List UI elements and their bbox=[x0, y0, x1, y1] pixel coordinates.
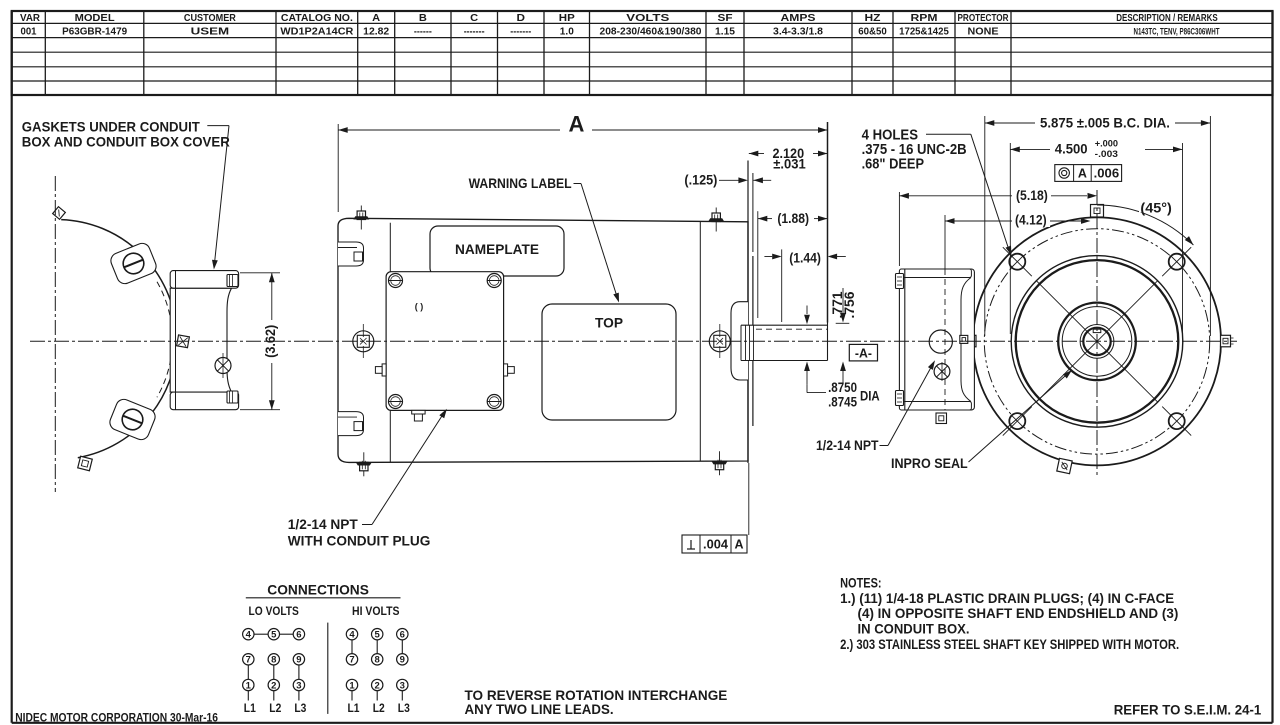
dimension .8750/.8745 DIA shaft bbox=[804, 306, 880, 410]
svg-text:CONNECTIONS: CONNECTIONS bbox=[267, 582, 369, 598]
svg-text:8: 8 bbox=[271, 655, 276, 666]
svg-text:L2: L2 bbox=[373, 703, 385, 715]
fan cover drain plug (bottom) bbox=[78, 456, 93, 471]
svg-text:8: 8 bbox=[375, 655, 380, 666]
terminal HI 2 bbox=[372, 679, 383, 691]
svg-text:9: 9 bbox=[400, 655, 405, 666]
wire LO 1-L1 bbox=[247, 691, 249, 701]
note GASKETS UNDER CONDUIT BOX bbox=[22, 120, 230, 150]
svg-text:REFER TO S.E.I.M. 24-1: REFER TO S.E.I.M. 24-1 bbox=[1114, 702, 1262, 718]
line lead label LO L2 bbox=[269, 703, 281, 715]
svg-text:A: A bbox=[1078, 167, 1087, 181]
svg-text:1.0: 1.0 bbox=[560, 26, 574, 37]
svg-text:WARNING LABEL: WARNING LABEL bbox=[469, 175, 572, 191]
note refer to SEIM bbox=[1114, 702, 1262, 718]
seal ring circle bbox=[1080, 325, 1114, 359]
connections diagram header bbox=[246, 582, 401, 714]
motor body (side view) bbox=[338, 218, 748, 462]
terminal HI 9 bbox=[397, 654, 408, 666]
svg-text:D: D bbox=[517, 13, 526, 24]
svg-text:4: 4 bbox=[349, 630, 355, 641]
svg-text:(45°): (45°) bbox=[1140, 200, 1171, 216]
svg-text:PROTECTOR: PROTECTOR bbox=[958, 13, 1010, 24]
datum flag -A- bbox=[849, 344, 877, 361]
terminal LO 2 bbox=[268, 679, 279, 691]
dimension (.125) flange thickness bbox=[684, 171, 771, 187]
svg-text:P63GBR-1479: P63GBR-1479 bbox=[62, 26, 127, 37]
svg-text:-------: ------- bbox=[510, 26, 531, 37]
conduit box lead hole mark bbox=[415, 302, 424, 312]
feature control frame concentricity .006 A bbox=[1055, 165, 1122, 182]
svg-text:HP: HP bbox=[559, 13, 575, 24]
svg-text:RPM: RPM bbox=[911, 13, 938, 24]
left view conduit box cover screw (top) bbox=[227, 275, 238, 287]
svg-text:1: 1 bbox=[349, 680, 355, 691]
wire LO 3-L3 bbox=[298, 691, 300, 701]
terminal LO 4 bbox=[243, 629, 254, 641]
svg-text:.004: .004 bbox=[703, 538, 728, 552]
svg-text:208-230/460&190/380: 208-230/460&190/380 bbox=[600, 26, 702, 37]
stud bolt bottom-left bbox=[356, 452, 372, 476]
svg-text:VOLTS: VOLTS bbox=[626, 13, 669, 24]
flange drain plug (bottom) bbox=[1057, 458, 1072, 473]
svg-text:SF: SF bbox=[718, 13, 733, 24]
dimension 5.875 B.C. DIA bbox=[985, 116, 1211, 337]
svg-text:A: A bbox=[569, 112, 585, 137]
note 1/2-14 NPT WITH CONDUIT PLUG bbox=[288, 517, 431, 549]
svg-text:±.031: ±.031 bbox=[773, 155, 806, 171]
gasket note leader bbox=[207, 126, 229, 270]
terminal LO 3 bbox=[293, 679, 304, 691]
svg-text:(4) IN OPPOSITE SHAFT END ENDS: (4) IN OPPOSITE SHAFT END ENDSHIELD AND … bbox=[858, 606, 1179, 621]
register circle outer bbox=[1011, 256, 1183, 428]
svg-text:5: 5 bbox=[271, 630, 277, 641]
left view fan cover arc bbox=[61, 220, 177, 458]
terminal LO 8 bbox=[268, 654, 279, 666]
wire LO 9-3 bbox=[298, 665, 300, 679]
svg-text:2: 2 bbox=[375, 680, 380, 691]
svg-text:001: 001 bbox=[21, 26, 37, 37]
svg-text:3: 3 bbox=[400, 680, 405, 691]
wire HI 3-L3 bbox=[401, 691, 403, 701]
svg-text:MODEL: MODEL bbox=[75, 13, 115, 24]
nameplate label bbox=[430, 226, 564, 276]
svg-text:DIA: DIA bbox=[860, 388, 880, 404]
dimension .771/.756 keyseat bbox=[830, 288, 857, 384]
terminal HI 6 bbox=[397, 629, 408, 641]
svg-text:2.) 303 STAINLESS STEEL SHAFT: 2.) 303 STAINLESS STEEL SHAFT KEY SHIPPE… bbox=[840, 637, 1179, 652]
line lead label HI L2 bbox=[373, 703, 385, 715]
wire LO 8-2 bbox=[273, 665, 275, 679]
svg-text:-A-: -A- bbox=[855, 346, 872, 361]
dimension (45 deg) bbox=[1097, 200, 1193, 246]
conduit box hidden line (right view) bbox=[944, 215, 946, 410]
terminal HI 7 bbox=[346, 654, 357, 666]
svg-text:USEM: USEM bbox=[191, 26, 230, 37]
left view hidden body arc (dashed) bbox=[157, 282, 172, 397]
svg-text:L1: L1 bbox=[244, 703, 257, 715]
stud bolt bottom-right bbox=[712, 451, 728, 475]
shaft (side view) bbox=[741, 323, 828, 361]
fan cover clamp bolt (top) bbox=[53, 207, 66, 220]
conduit box screw BR bbox=[487, 395, 501, 409]
svg-text:ANY TWO LINE LEADS.: ANY TWO LINE LEADS. bbox=[465, 701, 614, 717]
terminal HI 8 bbox=[372, 654, 383, 666]
dimension 2.120 &#177;.031 shaft extension bbox=[749, 145, 828, 171]
left view band clamp lug (top) bbox=[108, 241, 158, 286]
conduit box bolt (right view) bbox=[934, 362, 950, 381]
conduit box (front) bbox=[386, 272, 504, 411]
svg-text:5.875 ±.005 B.C. DIA.: 5.875 ±.005 B.C. DIA. bbox=[1040, 116, 1170, 131]
wire HI 1-L1 bbox=[351, 691, 353, 701]
svg-text:N143TC, TENV, P86C306WHT: N143TC, TENV, P86C306WHT bbox=[1134, 26, 1220, 36]
wire HI 6-9 bbox=[401, 640, 403, 654]
NPT leader (middle view) bbox=[362, 409, 447, 525]
conduit box screw TL bbox=[389, 274, 403, 288]
svg-text:6: 6 bbox=[400, 630, 405, 641]
terminal LO 7 bbox=[243, 654, 254, 666]
NPT hole (right view) bbox=[929, 330, 952, 353]
svg-text:LO VOLTS: LO VOLTS bbox=[249, 604, 299, 618]
4 holes leader bbox=[926, 134, 1012, 255]
svg-text:A: A bbox=[372, 13, 380, 24]
svg-text:.375 - 16 UNC-2B: .375 - 16 UNC-2B bbox=[862, 142, 967, 158]
terminal HI 1 bbox=[346, 679, 357, 691]
svg-text:1/2-14 NPT: 1/2-14 NPT bbox=[288, 517, 359, 532]
terminal HI 4 bbox=[346, 629, 357, 641]
svg-text:1725&1425: 1725&1425 bbox=[899, 26, 949, 37]
conduit box screw TR bbox=[487, 274, 501, 288]
svg-text:BOX AND CONDUIT BOX COVER: BOX AND CONDUIT BOX COVER bbox=[22, 134, 230, 149]
shaft keyway bbox=[1093, 329, 1101, 332]
svg-text:IN CONDUIT BOX.: IN CONDUIT BOX. bbox=[858, 622, 970, 637]
svg-text:60&50: 60&50 bbox=[858, 26, 887, 37]
terminal HI 5 bbox=[372, 629, 383, 641]
svg-text:1/2-14 NPT: 1/2-14 NPT bbox=[816, 438, 879, 453]
svg-text:NONE: NONE bbox=[968, 26, 999, 37]
feature control frame perpendicularity .004 A bbox=[682, 463, 749, 553]
svg-text:L1: L1 bbox=[348, 703, 361, 715]
horizontal centerline (all views) bbox=[30, 340, 1237, 342]
note 1/2-14 NPT (right view) bbox=[816, 438, 879, 453]
svg-text:------: ------ bbox=[414, 26, 432, 37]
svg-text:3.4-3.3/1.8: 3.4-3.3/1.8 bbox=[773, 26, 823, 37]
notes block bbox=[840, 576, 1179, 652]
svg-text:C: C bbox=[470, 13, 478, 24]
terminal HI 3 bbox=[397, 679, 408, 691]
svg-text:(.125): (.125) bbox=[684, 171, 717, 187]
conduit box hinge screw (top) bbox=[896, 274, 904, 289]
svg-text:+.000: +.000 bbox=[1095, 139, 1118, 150]
line lead label LO L3 bbox=[294, 703, 306, 715]
svg-text:.8745: .8745 bbox=[828, 393, 857, 409]
spec table bbox=[12, 11, 1273, 95]
conduit box hinge screw (bottom) bbox=[896, 391, 904, 406]
TOP label bbox=[542, 304, 676, 420]
svg-text:CUSTOMER: CUSTOMER bbox=[184, 13, 237, 24]
svg-text:(5.18): (5.18) bbox=[1016, 187, 1048, 203]
svg-text:6: 6 bbox=[296, 630, 301, 641]
svg-text:DESCRIPTION / REMARKS: DESCRIPTION / REMARKS bbox=[1116, 13, 1218, 24]
stud bolt top-right bbox=[708, 208, 724, 232]
dimension A (overall length) bbox=[338, 112, 827, 323]
dimension (1.88) bbox=[758, 210, 828, 318]
wire HI 2-L2 bbox=[376, 691, 378, 701]
svg-text:A: A bbox=[734, 538, 743, 552]
INPRO SEAL leader bbox=[969, 370, 1073, 462]
line lead label LO L1 bbox=[244, 703, 257, 715]
svg-text:(1.44): (1.44) bbox=[789, 249, 821, 265]
line lead label HI L3 bbox=[398, 703, 410, 715]
C-face flange outer circle bbox=[973, 217, 1221, 465]
svg-text:AMPS: AMPS bbox=[781, 13, 816, 24]
title NIDEC MOTOR CORPORATION bbox=[15, 711, 218, 725]
svg-text:1: 1 bbox=[246, 680, 252, 691]
svg-text:VAR: VAR bbox=[20, 13, 41, 24]
svg-text:1.15: 1.15 bbox=[715, 26, 735, 37]
svg-text:2: 2 bbox=[271, 680, 276, 691]
svg-text:NIDEC MOTOR CORPORATION 30-Mar: NIDEC MOTOR CORPORATION 30-Mar-16 bbox=[15, 711, 218, 725]
svg-text:4: 4 bbox=[246, 630, 252, 641]
left view conduit box bolt bbox=[215, 353, 231, 378]
left view band clamp lug (bottom) bbox=[107, 397, 157, 442]
svg-text:(1.88): (1.88) bbox=[777, 210, 809, 226]
four mounting bolt holes .375-16 UNC-2B bbox=[1003, 247, 1191, 435]
svg-text:1.) (11) 1/4-18 PLASTIC DRAIN: 1.) (11) 1/4-18 PLASTIC DRAIN PLUGS; (4)… bbox=[840, 591, 1174, 606]
svg-text:-------: ------- bbox=[464, 26, 485, 37]
conduit box clip (right view) bbox=[960, 335, 968, 343]
svg-text:.68" DEEP: .68" DEEP bbox=[862, 157, 925, 173]
svg-text:L3: L3 bbox=[294, 703, 306, 715]
C-face flange and bearing hub (side view) bbox=[731, 161, 753, 464]
conduit box profile (right view) bbox=[899, 269, 974, 410]
terminal LO 6 bbox=[293, 629, 304, 641]
fan cover clamp brackets (side view) bbox=[338, 242, 364, 436]
svg-text:4.500: 4.500 bbox=[1055, 141, 1088, 157]
left view vertical centerline bbox=[54, 176, 56, 492]
conduit box side lug (left) bbox=[375, 364, 386, 376]
svg-text:L2: L2 bbox=[269, 703, 281, 715]
terminal LO 5 bbox=[268, 629, 279, 641]
left view conduit box profile bbox=[170, 271, 238, 410]
diagonal centerlines bbox=[1036, 281, 1157, 402]
dimension (4.12) bbox=[945, 211, 1091, 227]
register circle inner bbox=[1016, 260, 1179, 423]
stud bolt top-left bbox=[353, 206, 369, 230]
conduit box screw BL bbox=[389, 395, 403, 409]
dimension (1.44) bbox=[764, 249, 845, 322]
line lead label HI L1 bbox=[348, 703, 361, 715]
svg-text:3: 3 bbox=[296, 680, 301, 691]
svg-text:5: 5 bbox=[375, 630, 381, 641]
warning label leader bbox=[574, 184, 620, 303]
right view vertical centerline bbox=[1096, 190, 1098, 478]
svg-text:L3: L3 bbox=[398, 703, 410, 715]
flange plug (12 oclock) bbox=[1091, 205, 1104, 218]
terminal LO 1 bbox=[243, 679, 254, 691]
svg-text:HI VOLTS: HI VOLTS bbox=[352, 604, 400, 618]
note 4 HOLES .375-16 UNC-2B bbox=[862, 128, 967, 173]
svg-text:7: 7 bbox=[349, 655, 354, 666]
svg-text:GASKETS UNDER CONDUIT: GASKETS UNDER CONDUIT bbox=[22, 120, 201, 135]
svg-text:WITH CONDUIT PLUG: WITH CONDUIT PLUG bbox=[288, 534, 431, 549]
svg-text:WD1P2A14CR: WD1P2A14CR bbox=[280, 26, 354, 37]
wire LO 4-5 bbox=[254, 633, 268, 635]
left view conduit box cover screw (bottom) bbox=[227, 391, 238, 403]
svg-text:( ): ( ) bbox=[415, 302, 424, 312]
wire LO 5-6 bbox=[280, 633, 294, 635]
left view clamp nut on centerline bbox=[177, 335, 190, 348]
wire LO 2-L2 bbox=[273, 691, 275, 701]
bearing boss outer circle bbox=[1058, 303, 1136, 381]
grease fitting boss (right) bbox=[709, 324, 730, 358]
svg-text:NAMEPLATE: NAMEPLATE bbox=[455, 241, 539, 257]
conduit box drain plug bbox=[412, 410, 425, 421]
wire HI 4-7 bbox=[351, 640, 353, 654]
note INPRO SEAL bbox=[891, 456, 968, 471]
bearing boss inner circle bbox=[1062, 307, 1132, 377]
wire HI 5-8 bbox=[376, 640, 378, 654]
svg-text:B: B bbox=[419, 13, 427, 24]
note WARNING LABEL bbox=[469, 175, 572, 191]
svg-text:TOP: TOP bbox=[595, 315, 623, 331]
flange plug (9 oclock) bbox=[963, 335, 976, 347]
dimension (3.62) conduit box height bbox=[240, 273, 280, 410]
conduit box side lug (right) bbox=[504, 364, 515, 376]
svg-text:.006: .006 bbox=[1094, 167, 1120, 181]
bolt circle (dash-dot) bbox=[984, 229, 1209, 454]
dimension 4.500 register bbox=[1010, 139, 1182, 335]
svg-text:INPRO SEAL: INPRO SEAL bbox=[891, 456, 968, 471]
wire LO 7-1 bbox=[247, 665, 249, 679]
svg-text:-.003: -.003 bbox=[1095, 149, 1118, 160]
svg-text:7: 7 bbox=[246, 655, 251, 666]
svg-text:12.82: 12.82 bbox=[363, 26, 389, 37]
svg-text:CATALOG NO.: CATALOG NO. bbox=[281, 13, 353, 24]
NPT leader (right view) bbox=[880, 360, 936, 445]
dimension (5.18) bbox=[899, 187, 1097, 266]
svg-text:NOTES:: NOTES: bbox=[840, 576, 882, 591]
conduit box bottom bolt (right view) bbox=[936, 413, 947, 424]
svg-text:(4.12): (4.12) bbox=[1015, 211, 1047, 227]
svg-text:9: 9 bbox=[296, 655, 301, 666]
terminal LO 9 bbox=[293, 654, 304, 666]
flange plug (3 oclock) bbox=[1221, 335, 1234, 347]
grease fitting boss (left) bbox=[353, 324, 374, 358]
note reverse rotation bbox=[465, 687, 728, 717]
shaft circle bbox=[1083, 328, 1110, 355]
svg-text:HZ: HZ bbox=[865, 13, 881, 24]
